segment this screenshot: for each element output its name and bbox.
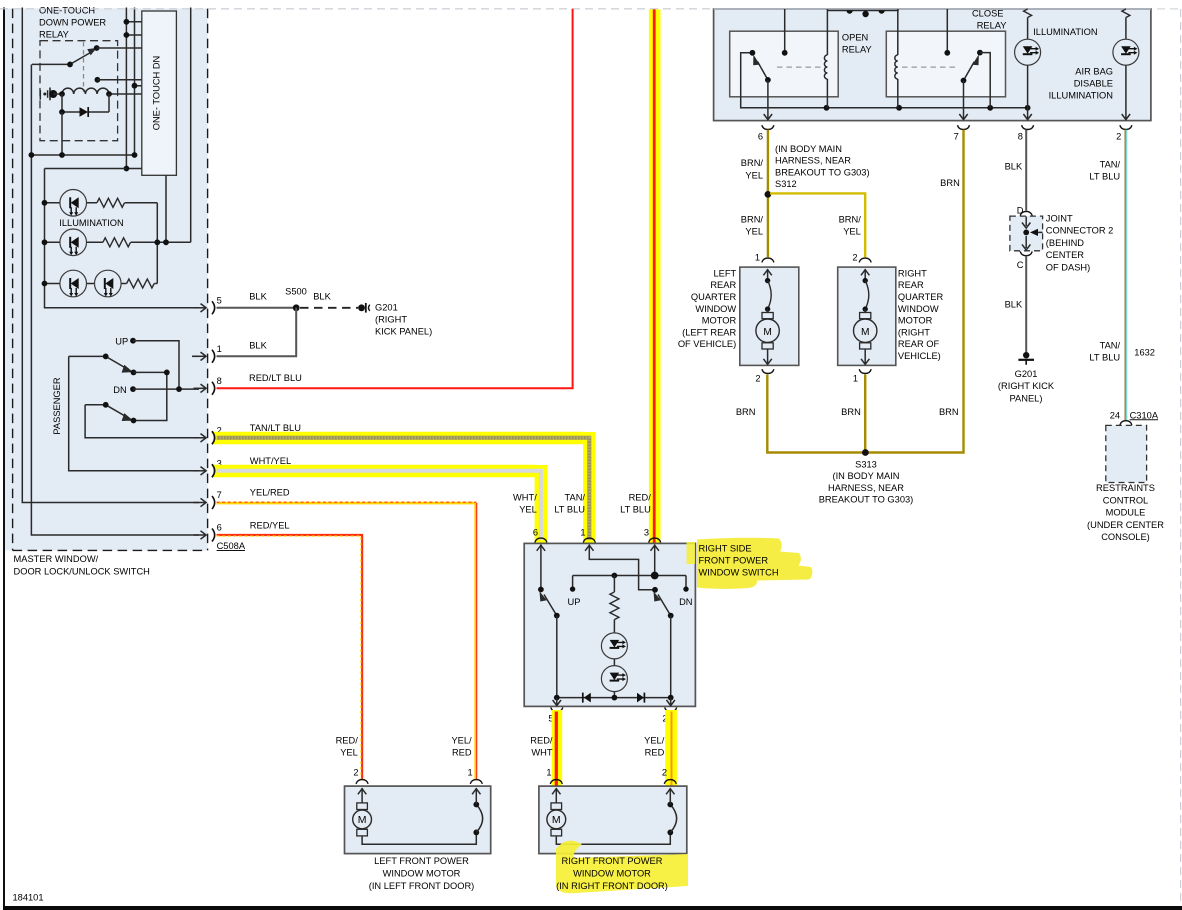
svg-text:LEFT: LEFT [713,268,736,278]
svg-text:(BEHIND: (BEHIND [1046,238,1085,248]
svg-text:2: 2 [852,253,857,263]
svg-text:M: M [861,327,870,338]
svg-text:DN: DN [113,385,126,395]
svg-text:RED/: RED/ [336,735,359,745]
svg-text:CLOSE: CLOSE [972,9,1004,19]
svg-text:1: 1 [580,528,585,538]
svg-text:5: 5 [217,296,222,306]
svg-text:S313: S313 [855,460,877,470]
svg-text:WINDOW: WINDOW [695,304,736,314]
svg-text:2: 2 [1116,131,1121,141]
svg-text:DOWN POWER: DOWN POWER [39,18,106,28]
svg-text:TAN/: TAN/ [1100,340,1121,350]
svg-text:CONSOLE): CONSOLE) [1101,532,1150,542]
svg-text:RED/YEL: RED/YEL [250,521,290,531]
svg-text:6: 6 [533,528,538,538]
svg-text:QUARTER: QUARTER [691,292,737,302]
svg-text:24: 24 [1110,410,1120,420]
svg-text:1: 1 [853,374,858,384]
svg-text:184101: 184101 [13,893,44,903]
svg-text:LT BLU: LT BLU [554,505,585,515]
svg-text:RIGHT SIDE: RIGHT SIDE [699,543,752,553]
svg-text:M: M [552,814,561,826]
svg-text:YEL: YEL [745,226,763,236]
svg-text:LEFT FRONT POWER: LEFT FRONT POWER [374,856,469,866]
svg-text:(RIGHT KICK: (RIGHT KICK [998,381,1055,391]
svg-text:C: C [1017,260,1024,270]
svg-text:YEL: YEL [745,170,763,180]
svg-text:2: 2 [755,374,760,384]
svg-text:YEL: YEL [843,226,861,236]
svg-text:RELAY: RELAY [977,21,1007,31]
svg-text:RED: RED [452,747,472,757]
svg-text:VEHICLE): VEHICLE) [898,351,941,361]
svg-text:OF DASH): OF DASH) [1046,262,1090,272]
svg-text:G201: G201 [1015,369,1038,379]
svg-text:RIGHT: RIGHT [898,268,927,278]
svg-text:BREAKOUT TO G303): BREAKOUT TO G303) [775,167,870,177]
svg-text:HARNESS, NEAR: HARNESS, NEAR [775,156,851,166]
svg-text:ONE-TOUCH: ONE-TOUCH [39,6,95,16]
svg-text:(IN LEFT FRONT DOOR): (IN LEFT FRONT DOOR) [369,881,475,891]
svg-text:3: 3 [644,528,649,538]
svg-text:CENTER: CENTER [1046,250,1085,260]
svg-text:2: 2 [662,767,667,777]
svg-text:PASSENGER: PASSENGER [52,377,62,434]
svg-text:1632: 1632 [1134,348,1155,358]
svg-text:C508A: C508A [217,541,246,551]
svg-text:LT BLU: LT BLU [620,505,651,515]
svg-text:TAN/: TAN/ [565,493,586,503]
svg-text:M: M [358,814,367,826]
svg-text:DOOR LOCK/UNLOCK SWITCH: DOOR LOCK/UNLOCK SWITCH [14,566,150,576]
svg-text:(IN RIGHT FRONT DOOR): (IN RIGHT FRONT DOOR) [556,881,668,891]
svg-text:(IN BODY MAIN: (IN BODY MAIN [775,144,842,154]
svg-text:8: 8 [1018,131,1023,141]
svg-text:MODULE: MODULE [1106,508,1146,518]
svg-text:BRN: BRN [939,407,959,417]
svg-text:DN: DN [679,597,692,607]
svg-text:(RIGHT: (RIGHT [375,315,407,325]
svg-text:BRN/: BRN/ [741,214,764,224]
svg-text:KICK PANEL): KICK PANEL) [375,326,432,336]
svg-text:HARNESS, NEAR: HARNESS, NEAR [828,483,904,493]
svg-text:C310A: C310A [1130,410,1159,420]
svg-text:REAR: REAR [898,280,924,290]
svg-text:8: 8 [217,376,222,386]
svg-text:WINDOW MOTOR: WINDOW MOTOR [573,868,651,878]
svg-text:WINDOW MOTOR: WINDOW MOTOR [383,868,461,878]
svg-text:S312: S312 [775,179,797,189]
svg-text:WHT/YEL: WHT/YEL [250,456,291,466]
svg-text:(LEFT REAR: (LEFT REAR [682,327,736,337]
svg-text:1: 1 [546,767,551,777]
svg-text:2: 2 [353,767,358,777]
svg-text:WHT: WHT [531,747,552,757]
svg-text:RESTRAINTS: RESTRAINTS [1096,483,1155,493]
svg-text:(RIGHT: (RIGHT [898,327,930,337]
svg-text:QUARTER: QUARTER [898,292,944,302]
svg-text:TAN/: TAN/ [1100,159,1121,169]
svg-text:TAN/LT BLU: TAN/LT BLU [250,423,301,433]
svg-text:(UNDER CENTER: (UNDER CENTER [1087,520,1164,530]
svg-text:ILLUMINATION: ILLUMINATION [1033,27,1097,37]
svg-text:MOTOR: MOTOR [898,316,933,326]
svg-text:ONE- TOUCH DN: ONE- TOUCH DN [152,56,162,131]
svg-text:OPEN: OPEN [842,33,868,43]
svg-text:WHT/: WHT/ [513,493,537,503]
svg-text:BLK: BLK [249,341,267,351]
svg-text:CONTROL: CONTROL [1103,495,1148,505]
svg-text:7: 7 [954,131,959,141]
svg-text:S500: S500 [285,287,307,297]
svg-text:JOINT: JOINT [1046,214,1073,224]
svg-text:PANEL): PANEL) [1010,393,1043,403]
svg-text:RED/: RED/ [629,493,652,503]
svg-text:FRONT POWER: FRONT POWER [699,555,769,565]
svg-text:UP: UP [115,337,128,347]
svg-text:LT BLU: LT BLU [1089,353,1120,363]
svg-text:ILLUMINATION: ILLUMINATION [1049,91,1113,101]
svg-text:BLK: BLK [249,291,267,301]
svg-text:AIR BAG: AIR BAG [1075,66,1113,76]
svg-text:(IN BODY MAIN: (IN BODY MAIN [833,471,900,481]
svg-text:G201: G201 [375,303,398,313]
svg-text:MOTOR: MOTOR [702,316,737,326]
svg-text:1: 1 [217,344,222,354]
svg-text:7: 7 [217,490,222,500]
svg-text:BREAKOUT TO G303): BREAKOUT TO G303) [819,495,914,505]
svg-text:6: 6 [758,131,763,141]
svg-text:6: 6 [217,523,222,533]
svg-text:YEL/: YEL/ [451,735,472,745]
svg-text:BLK: BLK [1005,300,1023,310]
svg-text:BRN: BRN [736,407,756,417]
svg-text:M: M [763,327,772,338]
svg-text:YEL/RED: YEL/RED [250,488,290,498]
svg-text:LT BLU: LT BLU [1089,172,1120,182]
svg-text:BRN/: BRN/ [839,214,862,224]
svg-text:YEL: YEL [519,505,537,515]
svg-text:CONNECTOR 2: CONNECTOR 2 [1046,226,1114,236]
svg-text:RELAY: RELAY [39,29,69,39]
svg-text:REAR: REAR [710,280,736,290]
svg-text:BLK: BLK [313,291,331,301]
svg-text:BRN/: BRN/ [741,158,764,168]
svg-text:RELAY: RELAY [842,45,872,55]
svg-text:RIGHT FRONT POWER: RIGHT FRONT POWER [562,856,663,866]
svg-text:WINDOW: WINDOW [898,304,939,314]
svg-text:1: 1 [468,767,473,777]
svg-text:ILLUMINATION: ILLUMINATION [59,218,123,228]
svg-text:RED: RED [645,747,665,757]
svg-text:BLK: BLK [1005,161,1023,171]
svg-text:UP: UP [568,597,581,607]
svg-text:WINDOW SWITCH: WINDOW SWITCH [699,567,779,577]
svg-text:REAR OF: REAR OF [898,339,940,349]
svg-text:RED/: RED/ [530,735,553,745]
svg-text:RED/LT BLU: RED/LT BLU [249,373,302,383]
svg-text:OF VEHICLE): OF VEHICLE) [678,339,736,349]
svg-text:BRN: BRN [940,178,960,188]
svg-text:DISABLE: DISABLE [1074,79,1113,89]
svg-text:YEL: YEL [340,747,358,757]
svg-text:1: 1 [755,253,760,263]
svg-text:YEL/: YEL/ [644,735,665,745]
svg-text:MASTER WINDOW/: MASTER WINDOW/ [14,554,99,564]
svg-text:BRN: BRN [841,407,861,417]
